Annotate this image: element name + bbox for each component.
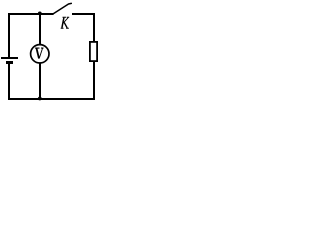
voltmeter V xyxy=(31,45,49,63)
wire: right rail below resistor xyxy=(93,61,95,99)
wire: bottom rail from junction to bottom-right corner xyxy=(38,98,95,100)
battery cell: short thick negative plate xyxy=(6,61,13,64)
wire: top-right segment from switch to resistor xyxy=(72,14,94,42)
battery cell: long positive plate xyxy=(1,57,18,59)
wire: voltmeter branch lower xyxy=(39,63,41,98)
node: top junction dot xyxy=(38,12,42,16)
wire: top-left segment (left rail down to battery + top rail to switch contact) xyxy=(9,14,54,57)
wire: left rail below battery to bottom-left corner xyxy=(9,63,38,99)
node: bottom junction dot xyxy=(38,97,42,101)
wire: voltmeter branch upper xyxy=(39,14,41,45)
resistor R (box) xyxy=(90,42,97,61)
switch K: open blade xyxy=(53,3,71,13)
label K xyxy=(61,17,69,28)
